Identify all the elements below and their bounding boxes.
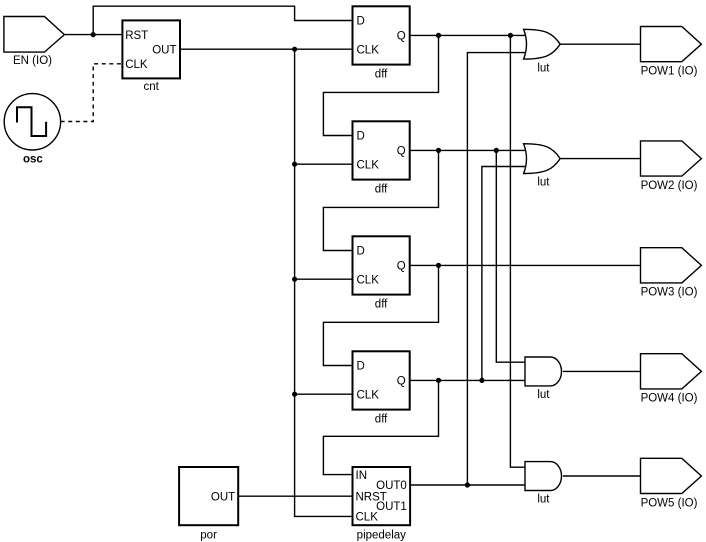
- svg-text:CLK: CLK: [357, 389, 380, 401]
- pipeline-delay U-pipedelay: [353, 467, 411, 525]
- svg-text:D: D: [357, 131, 365, 143]
- flip-flop dff4: [353, 351, 410, 409]
- svg-text:OUT0: OUT0: [376, 480, 407, 492]
- wire dff3 Q to POW3: [410, 264, 641, 266]
- svg-text:D: D: [357, 361, 365, 373]
- wire lut5 out to POW5: [563, 475, 641, 477]
- node OUT0 junction: [465, 482, 470, 487]
- wire clk to dff4 CLK: [295, 393, 353, 395]
- node Q4 junction: [436, 378, 441, 383]
- svg-text:EN (IO): EN (IO): [13, 55, 52, 67]
- wire clk to dff3 CLK: [295, 278, 353, 280]
- svg-text:POW1 (IO): POW1 (IO): [641, 66, 698, 78]
- svg-text:Q: Q: [397, 376, 406, 388]
- wire lut4 out to POW4: [563, 370, 641, 372]
- svg-text:dff: dff: [375, 69, 388, 81]
- svg-text:CLK: CLK: [357, 274, 380, 286]
- svg-text:OUT: OUT: [211, 491, 235, 503]
- wire lut2 out to POW2: [559, 158, 640, 160]
- node Q2 tap junction: [494, 148, 499, 153]
- flip-flop dff2: [353, 121, 410, 179]
- svg-text:IN: IN: [356, 470, 368, 482]
- wire dff4 Q to lut4 in B: [410, 379, 526, 381]
- node Q2 junction: [436, 148, 441, 153]
- svg-text:CLK: CLK: [125, 59, 148, 71]
- node EN junction: [91, 32, 96, 37]
- wire por OUT to pipedelay NRST: [238, 495, 352, 497]
- osc square wave symbol: [17, 107, 46, 136]
- node clk junction row4: [292, 392, 297, 397]
- wire lut2 in B from Q4 net: [482, 167, 532, 381]
- io pad POW2: [641, 141, 702, 176]
- lut5 (AND gate): [525, 462, 562, 491]
- svg-text:D: D: [357, 16, 365, 28]
- wire cnt OUT to dff1 CLK: [180, 48, 353, 50]
- lut4 (AND gate): [525, 357, 561, 386]
- wire clk vertical to pipedelay CLK: [295, 49, 353, 516]
- node Q3 junction: [436, 263, 441, 268]
- svg-text:lut: lut: [537, 494, 550, 506]
- wire lut5 in A from Q1 net: [510, 35, 526, 467]
- node clk junction row3: [292, 277, 297, 282]
- node Q1 junction: [436, 33, 441, 38]
- flip-flop dff1: [353, 6, 410, 64]
- svg-text:dff: dff: [375, 414, 388, 426]
- svg-text:CLK: CLK: [357, 159, 380, 171]
- wire dff2 Q to lut2 in A: [410, 149, 532, 151]
- wire lut1 in B from OUT0 net: [467, 53, 532, 485]
- svg-text:lut: lut: [537, 177, 550, 189]
- svg-text:Q: Q: [397, 146, 406, 158]
- oscillator OSC: [4, 94, 60, 150]
- flip-flop dff3: [353, 236, 410, 294]
- svg-text:CLK: CLK: [356, 512, 379, 524]
- node Q4 tap junction: [479, 378, 484, 383]
- svg-text:dff: dff: [375, 184, 388, 196]
- svg-text:Q: Q: [397, 261, 406, 273]
- lut1 (OR gate): [524, 29, 561, 59]
- wire dff2 Q to dff3 D: [323, 150, 438, 250]
- wire dff1 Q to dff2 D: [323, 35, 438, 135]
- wire lut1 out to POW1: [559, 43, 640, 45]
- wire clk to dff2 CLK: [295, 163, 353, 165]
- wire EN over cnt to dff1 D: [93, 6, 352, 34]
- svg-text:OUT: OUT: [152, 44, 176, 56]
- svg-text:RST: RST: [125, 30, 148, 42]
- wire dff1 Q to lut1 in A: [410, 34, 532, 36]
- node Q1 tap junction: [508, 33, 513, 38]
- svg-text:osc: osc: [23, 154, 43, 166]
- node clk junction row1: [292, 47, 297, 52]
- io pad POW1: [641, 27, 702, 62]
- svg-text:dff: dff: [375, 299, 388, 311]
- lut2 (OR gate): [524, 144, 561, 174]
- svg-text:cnt: cnt: [144, 81, 160, 93]
- power-on-reset U-por: [179, 467, 238, 525]
- svg-text:CLK: CLK: [357, 44, 380, 56]
- svg-text:POW2 (IO): POW2 (IO): [641, 180, 698, 192]
- wire dff4 Q to pipedelay IN: [323, 380, 438, 474]
- io pad POW4: [641, 354, 702, 389]
- svg-text:lut: lut: [537, 389, 550, 401]
- wire osc to cnt CLK (dashed): [61, 64, 123, 122]
- svg-text:pipedelay: pipedelay: [357, 530, 406, 542]
- svg-text:POW4 (IO): POW4 (IO): [641, 393, 698, 405]
- svg-text:POW3 (IO): POW3 (IO): [641, 287, 698, 299]
- svg-text:POW5 (IO): POW5 (IO): [641, 497, 698, 509]
- wire EN to cnt RST: [64, 34, 122, 36]
- svg-text:D: D: [357, 246, 365, 258]
- io pad POW5: [641, 458, 702, 493]
- wire dff3 Q to dff4 D: [323, 265, 438, 365]
- svg-text:lut: lut: [537, 62, 550, 74]
- wire lut4 in A from Q2 net: [496, 150, 526, 362]
- svg-text:OUT1: OUT1: [376, 501, 407, 513]
- svg-text:Q: Q: [397, 31, 406, 43]
- io pad EN: [4, 17, 65, 53]
- svg-text:por: por: [200, 530, 217, 542]
- wire pipedelay OUT0 to lut5 in B: [410, 484, 526, 486]
- counter U-cnt: [122, 20, 180, 78]
- node clk junction row2: [292, 162, 297, 167]
- io pad POW3: [641, 248, 702, 283]
